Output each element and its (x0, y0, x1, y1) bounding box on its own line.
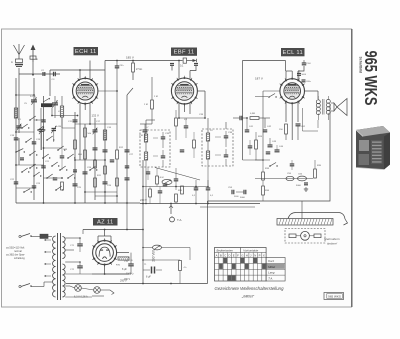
capacitor C46 (266, 151, 271, 153)
wire EBF side lead (197, 90, 205, 92)
aux antenna post (32, 50, 34, 62)
wire 132V row (75, 123, 117, 125)
trimmer C1 (17, 125, 22, 127)
wire transformer taps (44, 239, 51, 241)
wire col143 low (142, 204, 144, 284)
svg-text:T.A.: T.A. (177, 218, 182, 222)
svg-text:Lang: Lang (268, 271, 275, 275)
wire AZ cathode (104, 265, 106, 274)
IF transformer I (dashed can) (140, 130, 170, 167)
wire EBF anode lead (178, 61, 180, 79)
tuning gang C left (39, 129, 45, 131)
frame border of schematic sheet (2, 29, 352, 307)
wire matrix link j (44, 177, 63, 179)
tuning gang C right (52, 128, 57, 130)
switch bank row6 (23, 191, 25, 193)
capacitor C56 oval (298, 176, 307, 181)
capacitor C53 (231, 190, 233, 195)
resistor R cathode (285, 124, 288, 134)
svg-text:X: X (263, 254, 265, 258)
frame right fold line (351, 29, 353, 307)
pilot lamp 2 (94, 287, 101, 294)
capacitor C41 (245, 129, 250, 131)
capacitor C45 (248, 145, 253, 147)
power transformer secondary HV (62, 237, 65, 259)
capacitor C32 (73, 169, 77, 171)
svg-text:AZ 11: AZ 11 (97, 219, 114, 225)
speaker transformer (dashed) (285, 229, 325, 244)
wire ECL anode top (297, 71, 299, 79)
wire ECL cathode (285, 103, 287, 122)
svg-text:D: D (229, 254, 231, 258)
capacitor C16 (103, 149, 108, 151)
tube label AZ 11 (93, 218, 118, 226)
tube ECL11 (280, 79, 305, 104)
svg-text:2 M: 2 M (144, 104, 148, 106)
capacitor C50 (174, 178, 179, 180)
wire lamp row (70, 286, 75, 288)
wire col mid1 (74, 112, 76, 203)
wire heater bus (92, 273, 129, 275)
capacitor C19 (32, 141, 37, 143)
svg-text:8 μF: 8 μF (146, 276, 151, 279)
capacitor C52 (206, 187, 211, 189)
wire cathode drop (79, 113, 81, 160)
svg-text:0,5 M: 0,5 M (158, 177, 164, 179)
wire row207 (200, 206, 255, 208)
wire IF1 internals (145, 160, 147, 204)
resistor R22b (193, 140, 196, 148)
capacitor C34b (110, 159, 115, 161)
svg-text:Nietmuttern: Nietmuttern (324, 237, 340, 241)
svg-text:„Mittel“: „Mittel“ (241, 294, 255, 299)
capacitor C51 (194, 187, 199, 189)
wire row 178 mid (255, 178, 313, 180)
switch bank row5 (25, 141, 27, 143)
loudspeaker (337, 99, 347, 116)
capacitor C71b (77, 265, 83, 267)
svg-text:240 V: 240 V (140, 198, 147, 202)
wire output stage box (208, 104, 331, 201)
svg-text:Gezeichnete Wellenschalterstel: Gezeichnete Wellenschalterstellung (215, 286, 285, 291)
variable capacitor C5 tuning (31, 99, 37, 101)
capacitor C30 (143, 129, 148, 131)
capacitor C66 tone (302, 79, 306, 81)
switch bank row3 (21, 171, 23, 173)
part number box 965 WKS (324, 293, 344, 300)
resistor R21 between cans (175, 118, 178, 126)
wire cap bottom bus (105, 273, 131, 275)
resistor R6 (84, 128, 87, 137)
capacitor C40 (239, 116, 241, 121)
tube AZ11 rectifier (93, 241, 117, 265)
svg-text:5000: 5000 (296, 185, 302, 187)
capacitor C37 below can1 (146, 171, 151, 173)
wire tuner col1 (15, 78, 17, 203)
switch arm TA (269, 165, 271, 167)
resistor R31 (175, 194, 178, 202)
svg-text:965 WKS: 965 WKS (328, 295, 341, 299)
resistor R15 (104, 166, 107, 174)
capacitor C20 (41, 119, 46, 121)
svg-text:5000: 5000 (240, 197, 246, 199)
capacitor C24 (83, 171, 88, 173)
mains switch lower (19, 285, 21, 287)
terminal TA (170, 217, 175, 222)
speaker field coil sketch (277, 219, 333, 226)
svg-text:8 μF: 8 μF (122, 268, 127, 271)
wire ECH anode lead (79, 70, 81, 79)
wire tuner col2 (33, 78, 35, 200)
capacitor C55 oval (286, 176, 294, 180)
wire matrix link c (16, 164, 44, 166)
wire matrix link d (75, 159, 105, 161)
wire mid row 160b (255, 159, 263, 161)
switch bank row1 (21, 127, 23, 129)
svg-text:C: C (224, 254, 226, 258)
wire matrix link g (44, 147, 63, 149)
capacitor C64 tone (302, 62, 307, 64)
table outer (215, 248, 267, 282)
svg-text:ECH 11: ECH 11 (75, 49, 97, 55)
table filled cells (223, 258, 227, 263)
capacitor C22 (14, 181, 19, 183)
capacitor C36 (180, 149, 185, 151)
capacitor C31 (20, 157, 24, 159)
wire screen box top (50, 69, 105, 71)
capacitor C25 (73, 183, 78, 185)
wire EBF grid lead (189, 71, 191, 79)
capacitor C27 (125, 149, 130, 151)
switch bank row7 (29, 119, 31, 121)
wire HT bus 290V (66, 283, 208, 285)
capacitor C44 (275, 149, 280, 151)
oscillator coil L4 (60, 106, 63, 117)
capacitor C42 (263, 129, 268, 131)
capacitor C29 (60, 155, 65, 157)
wire matrix link l (22, 147, 44, 149)
wire ECH side lead (98, 90, 117, 92)
svg-text:F: F (237, 254, 239, 258)
svg-text:1340 Ω: 1340 Ω (126, 273, 134, 276)
wire col mid4 (104, 70, 106, 203)
wire matrix link i (16, 131, 34, 133)
ferrite coil L3 (dark bar) (41, 103, 53, 107)
capacitor C23 (32, 185, 37, 187)
coil L2 (14, 108, 17, 118)
wire r72 top (143, 259, 180, 261)
wire EBF top elbow (190, 66, 196, 71)
wire matrix link k (95, 195, 117, 197)
svg-text:B: B (220, 254, 222, 258)
svg-text:ECL 11: ECL 11 (283, 50, 304, 56)
capacitor C2 coupling (42, 72, 44, 76)
wire IF2 internals (207, 159, 209, 187)
capacitor C43 (268, 144, 273, 146)
resistor R72 (179, 261, 182, 271)
resistor R24 (255, 140, 258, 149)
svg-text:R 70: R 70 (128, 260, 133, 262)
switch bank row2 (15, 151, 17, 153)
svg-text:A: A (216, 254, 218, 258)
wire tuner col3 (43, 96, 45, 203)
svg-text:290 V: 290 V (124, 279, 130, 281)
capacitor C62 cathode (296, 123, 301, 125)
svg-text:Mittel: Mittel (268, 265, 275, 269)
svg-text:185 V: 185 V (126, 56, 134, 60)
mains switch upper (19, 235, 21, 237)
wire matrix link e (85, 191, 117, 193)
wire IF1 top leads (145, 120, 147, 134)
wire rectifier HT feed (126, 204, 128, 230)
potentiometer R73 (153, 245, 162, 250)
svg-text:Bedientasten: Bedientasten (217, 249, 234, 253)
wire ECL right lead (305, 90, 319, 92)
wire ECL supply bus (243, 59, 286, 61)
wire col 143 (142, 160, 144, 204)
power transformer secondary heater (62, 264, 65, 297)
svg-text:P: P (259, 254, 261, 258)
svg-text:E: E (36, 57, 38, 61)
svg-text:2 M: 2 M (154, 96, 158, 98)
wire antenna column (18, 68, 20, 120)
resistor R4 smoothing (183, 58, 186, 63)
wire IF2 top leads (207, 118, 209, 133)
resistor R33 (262, 172, 265, 180)
svg-text:T.A.: T.A. (268, 277, 273, 281)
wire ant coupling row (19, 73, 60, 75)
radio cabinet photo (356, 126, 390, 170)
wire transformer drop (317, 120, 319, 128)
wire bottom bus tuner (16, 202, 140, 204)
resistor R22 (250, 117, 259, 120)
svg-text:132 V: 132 V (92, 114, 99, 118)
volume potentiometer (162, 179, 172, 184)
table letter row (215, 257, 267, 259)
svg-text:H: H (246, 254, 248, 258)
wire EBF cathode leads (178, 104, 180, 118)
capacitor C38b (163, 183, 168, 185)
capacitor C21 (41, 165, 46, 167)
svg-text:6,3 V 0,28 A: 6,3 V 0,28 A (74, 296, 88, 299)
wire AZ plus lead (82, 230, 84, 235)
resistor R14 (61, 182, 64, 190)
resistor R30 (181, 186, 184, 194)
table row labels (266, 258, 285, 282)
switch bank row4 (89, 169, 91, 171)
IF transformer II (dashed can) (202, 129, 233, 166)
svg-text:G: G (241, 254, 243, 258)
capacitor C65 tone (297, 73, 301, 75)
wire ECL grid top (285, 71, 287, 79)
tube label EBF 11 (171, 48, 197, 56)
svg-text:Kurz: Kurz (268, 259, 274, 263)
wire matrix link a (16, 94, 34, 96)
capacitor C13 (93, 129, 98, 131)
wire matrix link h (62, 127, 75, 129)
antenna (14, 45, 20, 55)
svg-text:N: N (254, 254, 256, 258)
capacitor C18 (14, 137, 19, 139)
output transformer primary (316, 100, 320, 104)
capacitor C58 (290, 163, 295, 165)
wire long diagonal pointer (155, 168, 200, 181)
wire ECH grid lead (89, 61, 91, 79)
resistor R36 (149, 189, 152, 197)
resistor R34 (262, 186, 265, 195)
svg-text:A: A (11, 60, 13, 64)
wire AVC row (140, 123, 152, 125)
table header split (215, 252, 267, 254)
capacitor C70 electrolytic (128, 263, 134, 265)
capacitor C71a (77, 243, 83, 245)
svg-text:3+130: 3+130 (56, 126, 63, 128)
wire osc link (52, 115, 78, 117)
capacitor C28 (125, 177, 130, 179)
wire col mid3 (94, 118, 96, 200)
svg-text:0,3M: 0,3M (250, 113, 255, 115)
svg-text:schaltung: schaltung (14, 257, 25, 260)
wire row 186 (143, 186, 208, 188)
wire col mid5 (126, 95, 128, 203)
resistor R12 (116, 150, 119, 159)
wire speaker drop (301, 201, 303, 219)
resistor R23 below can1 (156, 176, 159, 184)
wire 185V supply bus (105, 60, 183, 62)
coil L6 (103, 130, 106, 140)
resistor R3 anode (132, 61, 134, 64)
resistor R11 (94, 178, 97, 187)
capacitor C33b (125, 165, 130, 167)
resistor R35 (314, 169, 317, 178)
wire ECL grid feed (263, 90, 280, 92)
wire AZ anode leads (97, 236, 99, 243)
svg-text:3+130: 3+130 (30, 96, 37, 98)
pilot lamp 1 (75, 285, 82, 292)
capacitor C9 (115, 65, 120, 67)
wire mid row160 (243, 159, 270, 161)
resistor R70 field coil (118, 257, 129, 260)
capacitor C35 (184, 125, 189, 127)
wire bus drop left (104, 61, 106, 71)
svg-text:27 kΩ: 27 kΩ (136, 68, 143, 71)
wire matrix link b (34, 119, 44, 121)
svg-text:187 V: 187 V (255, 77, 263, 81)
svg-text:Vorkontakte: Vorkontakte (243, 249, 258, 253)
variable capacitor C7 (52, 102, 58, 104)
tube EBF11 (171, 78, 197, 104)
svg-text:965 WKS: 965 WKS (361, 51, 381, 106)
wire matrix link f (16, 187, 34, 189)
svg-text:ändern!: ändern! (327, 242, 337, 246)
capacitor C73 electrolytic (151, 267, 153, 274)
resistor R17 (94, 160, 97, 168)
resistor R10 (84, 150, 87, 159)
resistor R16 (116, 178, 119, 186)
tube ECH11 (73, 78, 98, 103)
resistor R8 (74, 140, 77, 149)
wire det row (259, 117, 270, 119)
capacitor C3 coupling (53, 72, 55, 77)
wire AZ out right (117, 252, 129, 254)
capacitor C15 (93, 147, 98, 149)
wire col mid2 (84, 124, 86, 203)
capacitor C59 (158, 190, 163, 192)
table grid lines (218, 253, 220, 282)
capacitor C30b (53, 177, 58, 179)
wire secondary taps right (65, 237, 80, 239)
power transformer core (57, 233, 59, 300)
tube label ECH 11 (74, 47, 99, 55)
power transformer primary winding (53, 236, 56, 297)
wire ECH cathode leads (79, 103, 81, 113)
tube label ECL 11 (281, 48, 305, 56)
svg-text:E: E (233, 254, 235, 258)
resistor R20 AVC (151, 100, 154, 109)
capacitor C11 (73, 119, 78, 121)
wire row203 (140, 203, 260, 205)
capacitor C54 (243, 190, 245, 195)
switch ECL grid (255, 96, 268, 98)
wire AZ top to label (104, 230, 106, 237)
capacitor C26 (103, 181, 108, 183)
svg-text:EBF 11: EBF 11 (174, 50, 195, 56)
wire col 171 TA (170, 204, 172, 215)
capacitor C57 (304, 182, 308, 184)
